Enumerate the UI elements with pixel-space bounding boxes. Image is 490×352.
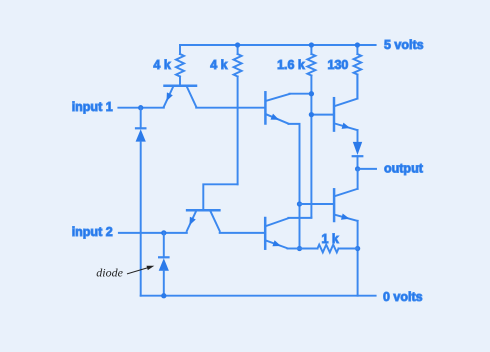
junction dot R2/5V bbox=[235, 42, 240, 47]
resistor R4 130 bbox=[356, 45, 358, 54]
wire Q4 collector to R3 bottom bbox=[288, 216, 311, 219]
wire input 1 bbox=[118, 107, 163, 109]
svg-text:130: 130 bbox=[328, 58, 349, 72]
transistor Q3 (phase splitter, input 1) bbox=[265, 92, 289, 123]
wire Q1 collector to Q3 base bbox=[196, 107, 264, 109]
wire Q3 collector to R3 bbox=[290, 93, 312, 95]
wire Q3 emitter down bbox=[289, 124, 300, 249]
resistor R3 1.6 k bbox=[310, 45, 312, 54]
wire Q6 collector to output bbox=[357, 169, 359, 189]
junction dot R4/5V bbox=[355, 42, 360, 47]
wire Q6 base bbox=[300, 203, 333, 205]
wire 0V rail bbox=[141, 295, 376, 297]
junction dot Q3c/R3 bbox=[309, 91, 314, 96]
svg-text:input 1: input 1 bbox=[72, 100, 113, 114]
wire Q4 emitter to R5 bbox=[288, 248, 300, 250]
junction dot R5 right bbox=[355, 246, 360, 251]
junction dot Q6 base tap bbox=[297, 201, 302, 206]
junction dot R3/5V bbox=[309, 42, 314, 47]
resistor R5 1 k bbox=[300, 248, 318, 250]
svg-text:output: output bbox=[384, 162, 424, 176]
wire Q2 base to R2 bbox=[203, 184, 237, 210]
svg-text:5 volts: 5 volts bbox=[384, 38, 424, 52]
diode D2 (input 2 clamp) bbox=[159, 233, 169, 296]
wire output stub bbox=[361, 168, 377, 170]
transistor Q5 (pull-up output) bbox=[334, 98, 358, 130]
wire Q2 collector to Q4 base bbox=[220, 232, 264, 234]
wire input 2 bbox=[119, 232, 187, 234]
svg-text:0 volts: 0 volts bbox=[383, 290, 423, 304]
wire Q5 base from R3 bbox=[311, 114, 332, 116]
wire 5V rail bbox=[180, 44, 376, 46]
junction dot Q5 base tap bbox=[309, 112, 314, 117]
junction dot R5 left bbox=[297, 246, 302, 251]
wire Q5 emitter to D3 bbox=[357, 130, 359, 141]
resistor R2 4 k bbox=[237, 45, 239, 54]
svg-text:4 k: 4 k bbox=[153, 58, 170, 72]
diode D1 (input 1 clamp) bbox=[136, 108, 146, 296]
transistor Q2 (input 2) bbox=[187, 210, 220, 231]
junction dot input1/D1 bbox=[138, 105, 143, 110]
svg-text:1.6 k: 1.6 k bbox=[277, 58, 305, 72]
transistor Q4 (phase splitter, input 2) bbox=[265, 218, 288, 249]
junction dot output node bbox=[355, 166, 360, 171]
svg-text:diode: diode bbox=[96, 265, 123, 279]
wire Q6 emitter down bbox=[357, 221, 359, 296]
svg-text:1 k: 1 k bbox=[322, 232, 339, 246]
arrow annotation to D2 bbox=[127, 266, 154, 274]
transistor Q1 (input 1) bbox=[164, 86, 196, 107]
svg-text:input 2: input 2 bbox=[72, 225, 113, 239]
junction dot D2/0V bbox=[161, 293, 166, 298]
resistor R1 4 k bbox=[179, 45, 181, 54]
junction dot input2/D2 bbox=[161, 230, 166, 235]
transistor Q6 (pull-down output) bbox=[334, 189, 358, 221]
diode D3 (output level shift) bbox=[353, 142, 363, 169]
svg-text:4 k: 4 k bbox=[210, 58, 227, 72]
wire Q5 collector up bbox=[356, 75, 358, 99]
